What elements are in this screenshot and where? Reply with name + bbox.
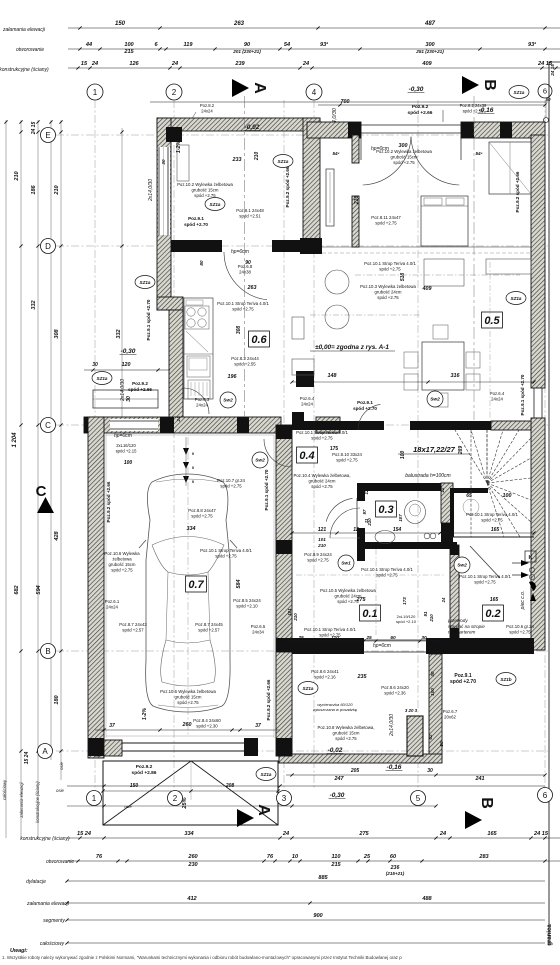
svg-text:0.2: 0.2: [485, 608, 500, 620]
svg-text:2x14,0/30: 2x14,0/30: [389, 714, 395, 737]
svg-text:spód +2.75: spód +2.75: [379, 267, 401, 272]
svg-text:spód +2.75: spód +2.75: [232, 307, 254, 312]
svg-text:12: 12: [353, 527, 359, 533]
svg-text:20x62: 20x62: [444, 715, 456, 720]
svg-text:334: 334: [184, 831, 194, 837]
svg-text:50: 50: [545, 97, 551, 102]
svg-text:Poz.8.8 24x47: Poz.8.8 24x47: [188, 508, 216, 513]
svg-text:grubość 15cm: grubość 15cm: [391, 155, 418, 160]
svg-text:120: 120: [122, 362, 131, 368]
svg-text:1-2%: 1-2%: [176, 141, 182, 154]
svg-text:101: 101: [318, 537, 326, 542]
svg-text:SZ1a: SZ1a: [303, 686, 314, 691]
svg-text:spód +2.75: spód +2.75: [194, 193, 216, 198]
svg-text:0.5: 0.5: [484, 315, 500, 327]
svg-text:Poz.8.7 24x43: Poz.8.7 24x43: [119, 622, 147, 627]
svg-text:-0,30: -0,30: [330, 792, 345, 799]
svg-text:załamania elewacji: załamania elewacji: [26, 901, 70, 907]
svg-text:Sw2: Sw2: [255, 458, 265, 464]
svg-text:Poz.10.3 Wylewka żelbetowa: Poz.10.3 Wylewka żelbetowa: [360, 284, 416, 289]
svg-text:428: 428: [54, 530, 60, 541]
svg-text:Poz.10.1 Strop Teriva 4.0/1: Poz.10.1 Strop Teriva 4.0/1: [296, 430, 348, 435]
svg-text:Poz.10.5 Wylewka żelbetowa: Poz.10.5 Wylewka żelbetowa: [320, 588, 376, 593]
svg-text:Poz.10.6 Wylewka: Poz.10.6 Wylewka: [104, 551, 140, 556]
svg-text:otworowanie: otworowanie: [16, 47, 44, 53]
svg-text:110: 110: [332, 854, 342, 860]
svg-text:121: 121: [318, 527, 327, 533]
svg-text:C: C: [45, 421, 51, 430]
svg-text:nad parterem: nad parterem: [448, 630, 475, 635]
svg-text:239: 239: [234, 61, 245, 67]
svg-text:210: 210: [293, 613, 298, 622]
svg-text:1-2%: 1-2%: [142, 708, 148, 720]
svg-text:spód +2.66: spód +2.66: [408, 110, 433, 116]
svg-text:100: 100: [503, 493, 512, 499]
svg-text:37: 37: [109, 723, 115, 729]
svg-text:283: 283: [478, 854, 489, 860]
svg-text:150: 150: [115, 21, 126, 27]
svg-text:Sw2: Sw2: [223, 398, 233, 404]
svg-text:spód +2.75: spód +2.75: [311, 436, 333, 441]
svg-text:210: 210: [14, 170, 20, 181]
svg-text:Poz.8.4 24x60: Poz.8.4 24x60: [193, 718, 221, 723]
svg-text:24x24: 24x24: [201, 108, 213, 113]
svg-text:5: 5: [416, 794, 421, 803]
svg-text:1: 1: [92, 794, 97, 803]
svg-text:Poz.10.1 Strop Teriva 4.0/1: Poz.10.1 Strop Teriva 4.0/1: [200, 548, 252, 553]
svg-text:spód +2.75: spód +2.75: [220, 484, 242, 489]
svg-text:D: D: [45, 242, 51, 251]
svg-text:584: 584: [236, 580, 242, 589]
svg-text:260: 260: [182, 722, 192, 728]
svg-text:80: 80: [199, 260, 204, 266]
svg-text:SZ1a: SZ1a: [514, 90, 525, 95]
svg-text:201 (230+21): 201 (230+21): [232, 49, 261, 54]
svg-text:412: 412: [186, 896, 197, 902]
svg-text:spód +2.30: spód +2.30: [196, 724, 218, 729]
svg-text:spód +2.16: spód +2.16: [314, 675, 336, 680]
svg-text:126: 126: [129, 61, 139, 67]
svg-text:2xL16/120: 2xL16/120: [116, 443, 136, 448]
svg-text:Poz.8.7 24x45: Poz.8.7 24x45: [195, 622, 223, 627]
svg-text:Poz.9.2 spód +2.66: Poz.9.2 spód +2.66: [515, 171, 520, 212]
svg-text:210: 210: [254, 152, 260, 162]
svg-text:piec c.o.: piec c.o.: [520, 591, 526, 611]
svg-text:332: 332: [116, 328, 122, 338]
svg-text:300: 300: [425, 42, 435, 48]
svg-text:210: 210: [54, 184, 60, 195]
svg-text:balustrada h=100cm: balustrada h=100cm: [405, 473, 450, 479]
svg-text:4: 4: [312, 88, 317, 97]
svg-text:-0,16: -0,16: [387, 764, 402, 771]
svg-text:24x24: 24x24: [106, 605, 118, 610]
svg-text:12: 12: [440, 487, 445, 492]
svg-text:6: 6: [543, 791, 548, 800]
svg-text:spód +2.51: spód +2.51: [463, 108, 485, 113]
svg-text:488: 488: [421, 896, 432, 902]
svg-text:24x38: 24x38: [239, 270, 251, 275]
svg-text:(215+21): (215+21): [386, 871, 405, 876]
svg-text:spód +2.75: spód +2.75: [111, 568, 133, 573]
svg-text:215: 215: [123, 49, 134, 55]
svg-text:spód +2.75: spód +2.75: [481, 518, 503, 523]
svg-text:25: 25: [365, 635, 372, 641]
svg-text:Poz.9.1 spód +2.70: Poz.9.1 spód +2.70: [146, 299, 151, 340]
svg-text:spód +2.70: spód +2.70: [184, 222, 208, 227]
svg-text:308: 308: [236, 326, 242, 335]
svg-text:żelbetowa: żelbetowa: [112, 557, 132, 562]
svg-text:Poz.10.1 Strop Teriva 4.0/1: Poz.10.1 Strop Teriva 4.0/1: [361, 567, 413, 572]
svg-text:Poz.9.1: Poz.9.1: [357, 400, 373, 405]
svg-text:Sw2: Sw2: [457, 563, 467, 569]
svg-text:97: 97: [362, 509, 367, 514]
svg-text:Poz.8.1 24x48: Poz.8.1 24x48: [236, 208, 264, 213]
svg-text:Poz.9.2: Poz.9.2: [132, 381, 148, 386]
svg-text:30: 30: [92, 362, 98, 368]
svg-text:208: 208: [225, 783, 235, 789]
svg-text:215: 215: [330, 862, 341, 868]
svg-text:275: 275: [356, 597, 367, 603]
svg-text:62: 62: [428, 734, 433, 740]
svg-text:K: K: [528, 555, 532, 561]
svg-text:-0,30: -0,30: [121, 348, 136, 355]
svg-text:osie: osie: [94, 753, 102, 758]
svg-text:spód +2.10: spód +2.10: [396, 619, 417, 624]
svg-text:osie: osie: [56, 788, 64, 793]
svg-text:Poz.10.2 Wylewka żelbetowa: Poz.10.2 Wylewka żelbetowa: [177, 182, 233, 187]
svg-text:15: 15: [81, 61, 88, 67]
svg-text:spód +2.57: spód +2.57: [122, 628, 144, 633]
svg-text:E: E: [45, 131, 50, 140]
svg-text:spód +2.75: spód +2.75: [311, 484, 333, 489]
svg-text:wpuszczana w posadzkę: wpuszczana w posadzkę: [313, 707, 358, 712]
svg-text:SZ1b: SZ1b: [500, 677, 511, 682]
svg-text:A: A: [251, 82, 268, 94]
svg-text:173: 173: [402, 597, 407, 605]
svg-text:487: 487: [424, 21, 436, 27]
svg-text:682: 682: [14, 584, 20, 594]
svg-text:230: 230: [187, 862, 198, 868]
svg-text:SZ1a: SZ1a: [278, 159, 289, 164]
svg-text:Poz.8.3 24x44: Poz.8.3 24x44: [231, 356, 259, 361]
svg-text:-0,02: -0,02: [328, 747, 343, 754]
svg-text:80: 80: [439, 741, 444, 747]
svg-text:Poz.6.3: Poz.6.3: [195, 397, 210, 402]
svg-text:Poz.10.6 gr.24: Poz.10.6 gr.24: [506, 624, 534, 629]
svg-text:308: 308: [54, 328, 60, 338]
svg-text:przewody: przewody: [447, 618, 468, 623]
svg-text:Poz.9.2: Poz.9.2: [136, 764, 153, 770]
svg-text:30: 30: [427, 768, 433, 774]
svg-text:93²: 93²: [528, 41, 536, 48]
svg-text:210: 210: [317, 543, 326, 548]
svg-text:Poz.9.1 spód +2.70: Poz.9.1 spód +2.70: [520, 374, 525, 415]
svg-text:334: 334: [187, 526, 196, 532]
svg-text:segmenty: segmenty: [43, 918, 65, 924]
svg-text:30: 30: [421, 635, 427, 641]
svg-text:spód +2.75: spód +2.75: [375, 221, 397, 226]
svg-text:289: 289: [458, 446, 464, 456]
svg-text:24: 24: [302, 61, 310, 67]
svg-text:spód +2.75: spód +2.75: [177, 700, 199, 705]
svg-text:całościowy: całościowy: [2, 779, 7, 800]
svg-text:SZ1a: SZ1a: [261, 772, 272, 777]
svg-text:24: 24: [176, 416, 181, 422]
svg-text:300: 300: [399, 143, 408, 149]
svg-text:Poz.10.1 Strop Teriva 4.0/1: Poz.10.1 Strop Teriva 4.0/1: [304, 627, 356, 632]
svg-text:-0,30: -0,30: [409, 86, 424, 93]
svg-text:SZ1a: SZ1a: [210, 202, 221, 207]
svg-text:241: 241: [475, 776, 485, 782]
svg-text:Poz.10.7 gr.24: Poz.10.7 gr.24: [217, 478, 245, 483]
svg-text:Poz.9.2 spód +2.66: Poz.9.2 spód +2.66: [285, 166, 290, 207]
svg-text:24x34: 24x34: [252, 630, 264, 635]
svg-text:SZ1a: SZ1a: [140, 280, 151, 285]
svg-text:594: 594: [36, 584, 42, 594]
svg-text:załamania elewacji: załamania elewacji: [2, 27, 46, 33]
svg-text:spód +2.66: spód +2.66: [128, 387, 152, 392]
svg-text:900: 900: [313, 913, 323, 919]
svg-text:Uwagi:: Uwagi:: [10, 948, 28, 954]
svg-text:Poz.8.6 24x41: Poz.8.6 24x41: [311, 669, 339, 674]
svg-text:grubość 15cm: grubość 15cm: [192, 188, 219, 193]
svg-text:30: 30: [161, 159, 166, 165]
svg-text:Poz.9.1: Poz.9.1: [454, 673, 471, 679]
svg-text:119: 119: [184, 42, 194, 48]
svg-text:Sw2: Sw2: [430, 397, 440, 403]
svg-text:załamania elewacji: załamania elewacji: [19, 781, 24, 818]
svg-text:spód +2.15: spód +2.15: [116, 448, 138, 453]
svg-text:100: 100: [400, 451, 406, 460]
svg-text:235: 235: [357, 674, 368, 680]
svg-text:SZ1a: SZ1a: [511, 296, 522, 301]
svg-text:Poz.8.6 24x20: Poz.8.6 24x20: [381, 685, 409, 690]
svg-text:Poz.9.1 spód +2.70: Poz.9.1 spód +2.70: [264, 469, 269, 510]
svg-text:spód +2.75: spód +2.75: [509, 630, 531, 635]
svg-text:A: A: [42, 747, 48, 756]
svg-text:148: 148: [328, 373, 337, 379]
svg-text:Sw1: Sw1: [341, 561, 351, 567]
svg-text:44: 44: [85, 42, 93, 48]
svg-text:180: 180: [54, 694, 60, 704]
svg-text:15 24: 15 24: [77, 831, 92, 837]
svg-text:316: 316: [451, 373, 461, 379]
svg-text:1 204: 1 204: [12, 432, 18, 448]
svg-text:24: 24: [441, 597, 446, 603]
svg-text:grubość 15cm: grubość 15cm: [109, 562, 136, 567]
svg-text:Poz.8.10 33x24: Poz.8.10 33x24: [332, 452, 362, 457]
svg-text:11: 11: [364, 518, 369, 523]
svg-text:B: B: [481, 79, 498, 91]
svg-text:18x17,22/27: 18x17,22/27: [413, 445, 456, 454]
svg-text:spód +2.70: spód +2.70: [450, 679, 476, 685]
svg-text:dylatacje: dylatacje: [26, 879, 46, 885]
svg-text:165: 165: [487, 831, 497, 837]
svg-text:Poz.10.8 Wylewka żelbetowa,: Poz.10.8 Wylewka żelbetowa,: [317, 725, 374, 730]
svg-text:1. Wszystkie roboty należy wyk: 1. Wszystkie roboty należy wykonywać zgo…: [2, 955, 402, 960]
svg-text:spód +2.75: spód +2.75: [377, 295, 399, 300]
svg-text:24x24: 24x24: [491, 397, 503, 402]
svg-text:150: 150: [130, 783, 139, 789]
svg-text:332: 332: [31, 299, 37, 309]
svg-text:107: 107: [398, 514, 403, 522]
svg-text:0.3: 0.3: [378, 504, 393, 516]
svg-text:Poz.8.9 24x24: Poz.8.9 24x24: [304, 552, 332, 557]
svg-text:60: 60: [390, 854, 397, 860]
svg-text:spód +2.75: spód +2.75: [336, 458, 358, 463]
svg-text:24 15: 24 15: [550, 64, 555, 77]
svg-text:263: 263: [247, 285, 257, 291]
svg-text:90: 90: [244, 42, 251, 48]
svg-text:spód +2.70: spód +2.70: [353, 406, 377, 411]
svg-text:±0,00= zgodna z rys. A-1: ±0,00= zgodna z rys. A-1: [315, 344, 389, 351]
svg-text:konstrukcyjne (ściany): konstrukcyjne (ściany): [0, 67, 49, 73]
svg-text:spód +2.75: spód +2.75: [191, 514, 213, 519]
svg-text:260: 260: [187, 854, 198, 860]
svg-text:12: 12: [442, 527, 448, 533]
svg-text:24: 24: [171, 61, 179, 67]
svg-text:24: 24: [439, 831, 447, 837]
svg-text:Poz.10.1 Strop Teriva 4.0/1: Poz.10.1 Strop Teriva 4.0/1: [364, 261, 416, 266]
svg-text:60: 60: [390, 635, 396, 641]
svg-text:100: 100: [124, 460, 133, 466]
svg-text:30: 30: [126, 396, 132, 402]
svg-text:spód +2.86: spód +2.86: [132, 770, 157, 776]
svg-text:247: 247: [334, 776, 345, 782]
svg-text:3 20 3: 3 20 3: [405, 708, 418, 713]
svg-text:SZ1a: SZ1a: [97, 376, 108, 381]
svg-text:0.7: 0.7: [188, 579, 204, 591]
svg-text:3: 3: [282, 794, 287, 803]
svg-text:B: B: [45, 647, 50, 656]
svg-text:grubość 15cm: grubość 15cm: [175, 695, 202, 700]
svg-text:Poz.10.4 Wylewka żelbetowa,: Poz.10.4 Wylewka żelbetowa,: [293, 473, 350, 478]
svg-text:0.1: 0.1: [362, 608, 377, 620]
svg-text:15 24: 15 24: [24, 752, 30, 765]
svg-text:275: 275: [358, 831, 369, 837]
svg-text:165: 165: [491, 527, 500, 533]
svg-text:granica: granica: [547, 924, 553, 946]
svg-text:spód +2.55: spód +2.55: [234, 362, 256, 367]
svg-text:Poz.10.6 Wylewka żelbetowa: Poz.10.6 Wylewka żelbetowa: [160, 689, 216, 694]
svg-text:spód +2.75: spód +2.75: [393, 160, 415, 165]
svg-text:spód +2.57: spód +2.57: [198, 628, 220, 633]
svg-text:210: 210: [429, 614, 434, 623]
svg-text:409: 409: [422, 286, 432, 292]
svg-text:Poz.9.2 spód +2.66: Poz.9.2 spód +2.66: [106, 481, 111, 522]
svg-text:65: 65: [466, 493, 472, 499]
svg-text:24 15: 24 15: [533, 831, 549, 837]
svg-text:518: 518: [400, 273, 406, 282]
svg-text:24: 24: [91, 61, 99, 67]
svg-text:otworowanie: otworowanie: [46, 859, 74, 865]
svg-text:100: 100: [124, 42, 134, 48]
svg-text:konstrukcyjne (ściany): konstrukcyjne (ściany): [20, 836, 70, 842]
svg-text:całościowy: całościowy: [40, 941, 65, 947]
svg-text:spód +2.75: spód +2.75: [474, 580, 496, 585]
svg-text:spód +2.36: spód +2.36: [384, 691, 406, 696]
svg-text:2: 2: [173, 794, 178, 803]
svg-text:110: 110: [331, 635, 339, 641]
svg-text:25: 25: [297, 635, 304, 641]
svg-text:Poz.9.2: Poz.9.2: [412, 104, 429, 110]
svg-text:154: 154: [393, 527, 402, 533]
svg-text:0.4: 0.4: [299, 450, 314, 462]
svg-text:spód +2.75: spód +2.75: [335, 736, 357, 741]
svg-text:Poz.6.5: Poz.6.5: [251, 624, 266, 629]
svg-text:Poz.8.2: Poz.8.2: [200, 103, 215, 108]
svg-text:Poz.6.1: Poz.6.1: [105, 599, 120, 604]
svg-text:hp=0cm: hp=0cm: [373, 643, 391, 649]
svg-text:54⁴: 54⁴: [332, 151, 339, 156]
svg-text:grubość 24cm: grubość 24cm: [375, 290, 402, 295]
svg-text:93²: 93²: [320, 41, 328, 48]
svg-text:spód +2.75: spód +2.75: [215, 554, 237, 559]
svg-text:210: 210: [354, 196, 360, 206]
svg-text:24x24: 24x24: [301, 402, 313, 407]
svg-text:konstrukcyjne (ściany): konstrukcyjne (ściany): [35, 781, 40, 823]
svg-text:76: 76: [96, 854, 103, 860]
svg-text:263: 263: [233, 21, 245, 27]
svg-text:stawiać na stropie: stawiać na stropie: [448, 624, 485, 629]
svg-text:6: 6: [543, 87, 547, 96]
svg-text:Poz.8.2 24x39: Poz.8.2 24x39: [460, 103, 487, 108]
svg-text:90: 90: [245, 260, 251, 266]
svg-text:-0,02: -0,02: [245, 124, 260, 131]
svg-text:Poz.6.7: Poz.6.7: [443, 709, 458, 714]
svg-text:hp=0cm: hp=0cm: [114, 433, 132, 439]
svg-text:C: C: [36, 483, 47, 500]
svg-text:hp=0cm: hp=0cm: [371, 146, 389, 152]
svg-text:Poz.10.1 Strop Teriva 4.0/1: Poz.10.1 Strop Teriva 4.0/1: [217, 301, 269, 306]
svg-text:2: 2: [172, 88, 177, 97]
svg-text:spód +2.51: spód +2.51: [239, 214, 261, 219]
svg-text:101: 101: [287, 608, 292, 616]
svg-text:Poz.9.2 spód +2.66: Poz.9.2 spód +2.66: [266, 679, 271, 720]
svg-text:Poz.10.1 Strop Teriva 4.0/1: Poz.10.1 Strop Teriva 4.0/1: [459, 574, 511, 579]
svg-text:Poz.6.4: Poz.6.4: [490, 391, 505, 396]
svg-text:spód +2.10: spód +2.10: [236, 604, 258, 609]
svg-text:25: 25: [363, 854, 371, 860]
svg-text:0.6: 0.6: [251, 334, 267, 346]
svg-text:grubość 15cm: grubość 15cm: [333, 731, 360, 736]
svg-text:spód +2.75: spód +2.75: [307, 558, 329, 563]
svg-text:2x14,0/30: 2x14,0/30: [120, 379, 126, 402]
svg-text:25%: 25%: [182, 797, 188, 809]
svg-text:hp=0cm: hp=0cm: [231, 249, 249, 255]
svg-text:196: 196: [228, 374, 238, 380]
svg-text:Poz.8.5 24x24: Poz.8.5 24x24: [233, 598, 261, 603]
svg-text:1: 1: [93, 88, 98, 97]
svg-text:165: 165: [490, 597, 499, 603]
svg-text:100: 100: [430, 688, 435, 696]
svg-text:54: 54: [284, 42, 291, 48]
svg-text:205: 205: [350, 768, 360, 774]
svg-text:24x24: 24x24: [196, 403, 208, 408]
svg-text:Poz.9.1: Poz.9.1: [188, 216, 204, 221]
svg-text:grubość 24cm: grubość 24cm: [309, 479, 336, 484]
svg-text:2x14,0/30: 2x14,0/30: [148, 179, 154, 202]
svg-text:30: 30: [430, 671, 435, 677]
svg-text:409: 409: [421, 61, 432, 67]
svg-text:Poz.10.1 Strop Teriva 4.0/1: Poz.10.1 Strop Teriva 4.0/1: [466, 512, 518, 517]
svg-text:251 (230+21): 251 (230+21): [415, 49, 444, 54]
svg-text:Poz.8.11 24x47: Poz.8.11 24x47: [371, 215, 401, 220]
svg-text:10: 10: [292, 854, 299, 860]
svg-text:233: 233: [232, 157, 242, 163]
svg-text:885: 885: [318, 875, 328, 881]
svg-text:37: 37: [255, 723, 261, 729]
